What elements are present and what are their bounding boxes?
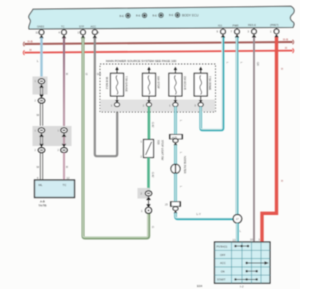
noise filter N1 [171, 164, 180, 173]
svg-text:W-B NO.2: W-B NO.2 [105, 77, 109, 90]
connector J7 female [145, 191, 151, 200]
wire L (blue) from GND2 pin [40, 38, 42, 79]
svg-text:L: L [179, 120, 183, 122]
banner pin circle ACC [92, 30, 97, 35]
svg-text:R: R [66, 72, 68, 76]
svg-text:ML: ML [39, 183, 43, 187]
banner pin circle PRET [274, 29, 279, 34]
gray box behind connector pairs row 2 [33, 126, 72, 146]
svg-text:OFF: OFF [220, 253, 226, 257]
banner pin circle RES-E [252, 29, 257, 34]
ignition switch table [215, 242, 271, 283]
svg-text:L: L [37, 59, 39, 63]
wire R between J5 J6 [63, 137, 65, 144]
body ECU banner [29, 6, 294, 29]
svg-text:R: R [66, 165, 68, 169]
svg-text:R: R [285, 46, 288, 50]
fuse F3 [169, 73, 182, 96]
banner pin circle STP [81, 30, 86, 35]
svg-text:L: L [226, 62, 230, 64]
connector J6 female (maroon column) [61, 144, 67, 153]
svg-text:7.5A GAUGE: 7.5A GAUGE [125, 76, 129, 92]
wire L from PWR pin to junction circle [236, 37, 239, 214]
fuse F1 [111, 73, 124, 96]
svg-text:STP: STP [79, 24, 84, 28]
connector below tag [173, 139, 178, 143]
banner pin stems [42, 28, 277, 30]
connector below tag 2 [173, 207, 178, 211]
connector J3 female [38, 128, 44, 137]
svg-text:L: L [179, 152, 183, 154]
svg-text:(PRET): (PRET) [270, 23, 279, 27]
wire GR (gray) from ACC pin, U-route to fuse 1 [95, 38, 117, 157]
wire W to DLC box [40, 153, 42, 180]
svg-text:E04: E04 [197, 284, 203, 288]
svg-text:11: 11 [36, 30, 39, 34]
svg-text:2: 2 [58, 149, 60, 152]
svg-text:G: G [86, 72, 88, 76]
connector pin number labels [35, 80, 60, 152]
wire L junction to switch table [236, 223, 239, 242]
svg-text:B-E: B-E [136, 14, 141, 18]
svg-text:PUSH(1): PUSH(1) [217, 244, 228, 248]
svg-text:7.5A DOME: 7.5A DOME [208, 76, 212, 90]
red bus line R-B [23, 42, 24, 47]
svg-text:W: W [37, 165, 40, 169]
table contact marks [235, 245, 268, 280]
table row labels [217, 244, 228, 281]
svg-text:START: START [217, 278, 226, 282]
svg-text:7: 7 [231, 30, 233, 34]
svg-text:ON: ON [221, 269, 225, 273]
svg-text:4: 4 [59, 30, 61, 34]
main power source dashed box [100, 64, 216, 112]
svg-text:R: R [280, 180, 284, 182]
svg-text:B-E: B-E [169, 13, 174, 17]
connector J1 male arrow [39, 84, 44, 88]
connector J1 female [38, 79, 44, 88]
wire G-W fuse2 to stop light sw [148, 107, 151, 140]
connector icon B-E 3 [159, 13, 164, 18]
fuse F4 [194, 73, 207, 96]
svg-text:S15: S15 [157, 140, 161, 145]
banner pin circle PWR [235, 29, 240, 34]
gray box behind connector pair 1 [33, 77, 48, 95]
junction circle JC [233, 215, 242, 224]
wire W segment [40, 88, 42, 95]
connector J4 female [38, 144, 44, 153]
fuse F2 [143, 73, 156, 96]
svg-text:15A ECU-B: 15A ECU-B [183, 76, 187, 90]
banner pin circle IG1 [221, 29, 226, 34]
svg-text:MAIN POWER SOURCE SYSTEM SEE P: MAIN POWER SOURCE SYSTEM SEE PAGE 100 [106, 59, 177, 63]
bus labels [28, 37, 289, 52]
banner icon labels [120, 13, 200, 18]
svg-text:2: 2 [141, 155, 143, 159]
banner pin circle TC [62, 30, 67, 35]
banner pin labels [37, 23, 279, 29]
svg-text:TC: TC [61, 25, 65, 29]
svg-text:ACC: ACC [91, 24, 97, 28]
stop light switch S15 [144, 140, 154, 158]
wire W between J3 J4 [40, 137, 42, 144]
svg-text:TA/TB: TA/TB [39, 204, 47, 208]
svg-text:G: G [151, 226, 155, 228]
table pin numbers [233, 238, 261, 242]
svg-text:2: 2 [35, 100, 37, 103]
pin numbers [36, 30, 273, 35]
svg-text:R-B: R-B [28, 40, 33, 44]
wire L fuse4 U-route to IG1 pin [201, 37, 223, 130]
svg-text:NOISE FILTER: NOISE FILTER [183, 156, 187, 174]
svg-text:10A STOP: 10A STOP [157, 76, 161, 89]
svg-text:L-Y: L-Y [197, 212, 201, 216]
svg-text:B-E: B-E [120, 14, 125, 18]
svg-text:1: 1 [270, 30, 272, 34]
svg-text:GR: GR [256, 62, 260, 66]
svg-text:10: 10 [250, 238, 253, 242]
gray band [101, 100, 216, 112]
svg-text:2: 2 [35, 149, 37, 152]
wire L fuse3 down [174, 107, 177, 135]
svg-text:I-J: I-J [240, 285, 244, 289]
svg-text:TC: TC [63, 183, 67, 187]
wire GR from RES-E pin to table [253, 37, 255, 242]
svg-text:8: 8 [98, 30, 100, 34]
junction tag A25 [170, 135, 183, 139]
wire G (green) long run: banner STP pin to stop light sw chain [83, 38, 149, 238]
svg-text:R-B: R-B [283, 37, 288, 41]
connector J8 female round [146, 204, 150, 207]
svg-text:9: 9 [217, 30, 219, 34]
svg-text:GND2: GND2 [37, 25, 45, 29]
svg-text:L: L [240, 62, 244, 64]
wire L-Y elbow to junction [176, 213, 234, 219]
wire L [174, 145, 177, 164]
banner pin circle GND2 [39, 30, 44, 35]
svg-text:13: 13 [233, 238, 236, 242]
svg-text:R: R [30, 48, 33, 52]
svg-text:R: R [280, 68, 284, 70]
connector icon B-E 2 [142, 13, 147, 18]
connector J2 male arrow [39, 94, 44, 97]
wire R to DLC box [63, 153, 65, 180]
short wire [148, 200, 150, 205]
thick wire R from PRET pin, jog to table [262, 37, 277, 242]
gray box at connector pair [138, 188, 150, 199]
svg-text:RES-E: RES-E [248, 23, 256, 27]
svg-text:B-E: B-E [153, 13, 158, 17]
svg-text:L: L [179, 186, 183, 188]
connector J2 female [38, 98, 44, 103]
svg-text:L: L [240, 229, 242, 233]
connector icon B-E 4 [175, 13, 180, 18]
wire W down to pair 2 [40, 103, 42, 128]
svg-text:W: W [37, 113, 40, 117]
svg-text:IG1: IG1 [218, 23, 223, 27]
svg-text:G-W: G-W [151, 172, 155, 178]
svg-text:17: 17 [236, 217, 240, 221]
wire R (maroon) from TC pin [63, 38, 65, 128]
svg-text:1: 1 [259, 238, 261, 242]
svg-text:3: 3 [248, 30, 250, 34]
red bus line R [23, 50, 24, 55]
svg-text:G-W: G-W [151, 122, 155, 128]
svg-text:BODY ECU: BODY ECU [182, 13, 199, 17]
wire L below filter [174, 174, 177, 202]
connector icon B-E 1 [126, 13, 180, 18]
svg-text:STOP LIGHT SW: STOP LIGHT SW [161, 140, 165, 161]
wire G-W below switch [147, 158, 150, 191]
svg-text:25: 25 [165, 204, 168, 207]
svg-text:1: 1 [141, 209, 143, 213]
svg-text:1: 1 [141, 140, 143, 144]
svg-text:PWR: PWR [233, 23, 239, 27]
connector J5 female (maroon column) [61, 128, 67, 137]
DLC3 component box [35, 180, 75, 198]
svg-text:ACC: ACC [220, 261, 226, 265]
